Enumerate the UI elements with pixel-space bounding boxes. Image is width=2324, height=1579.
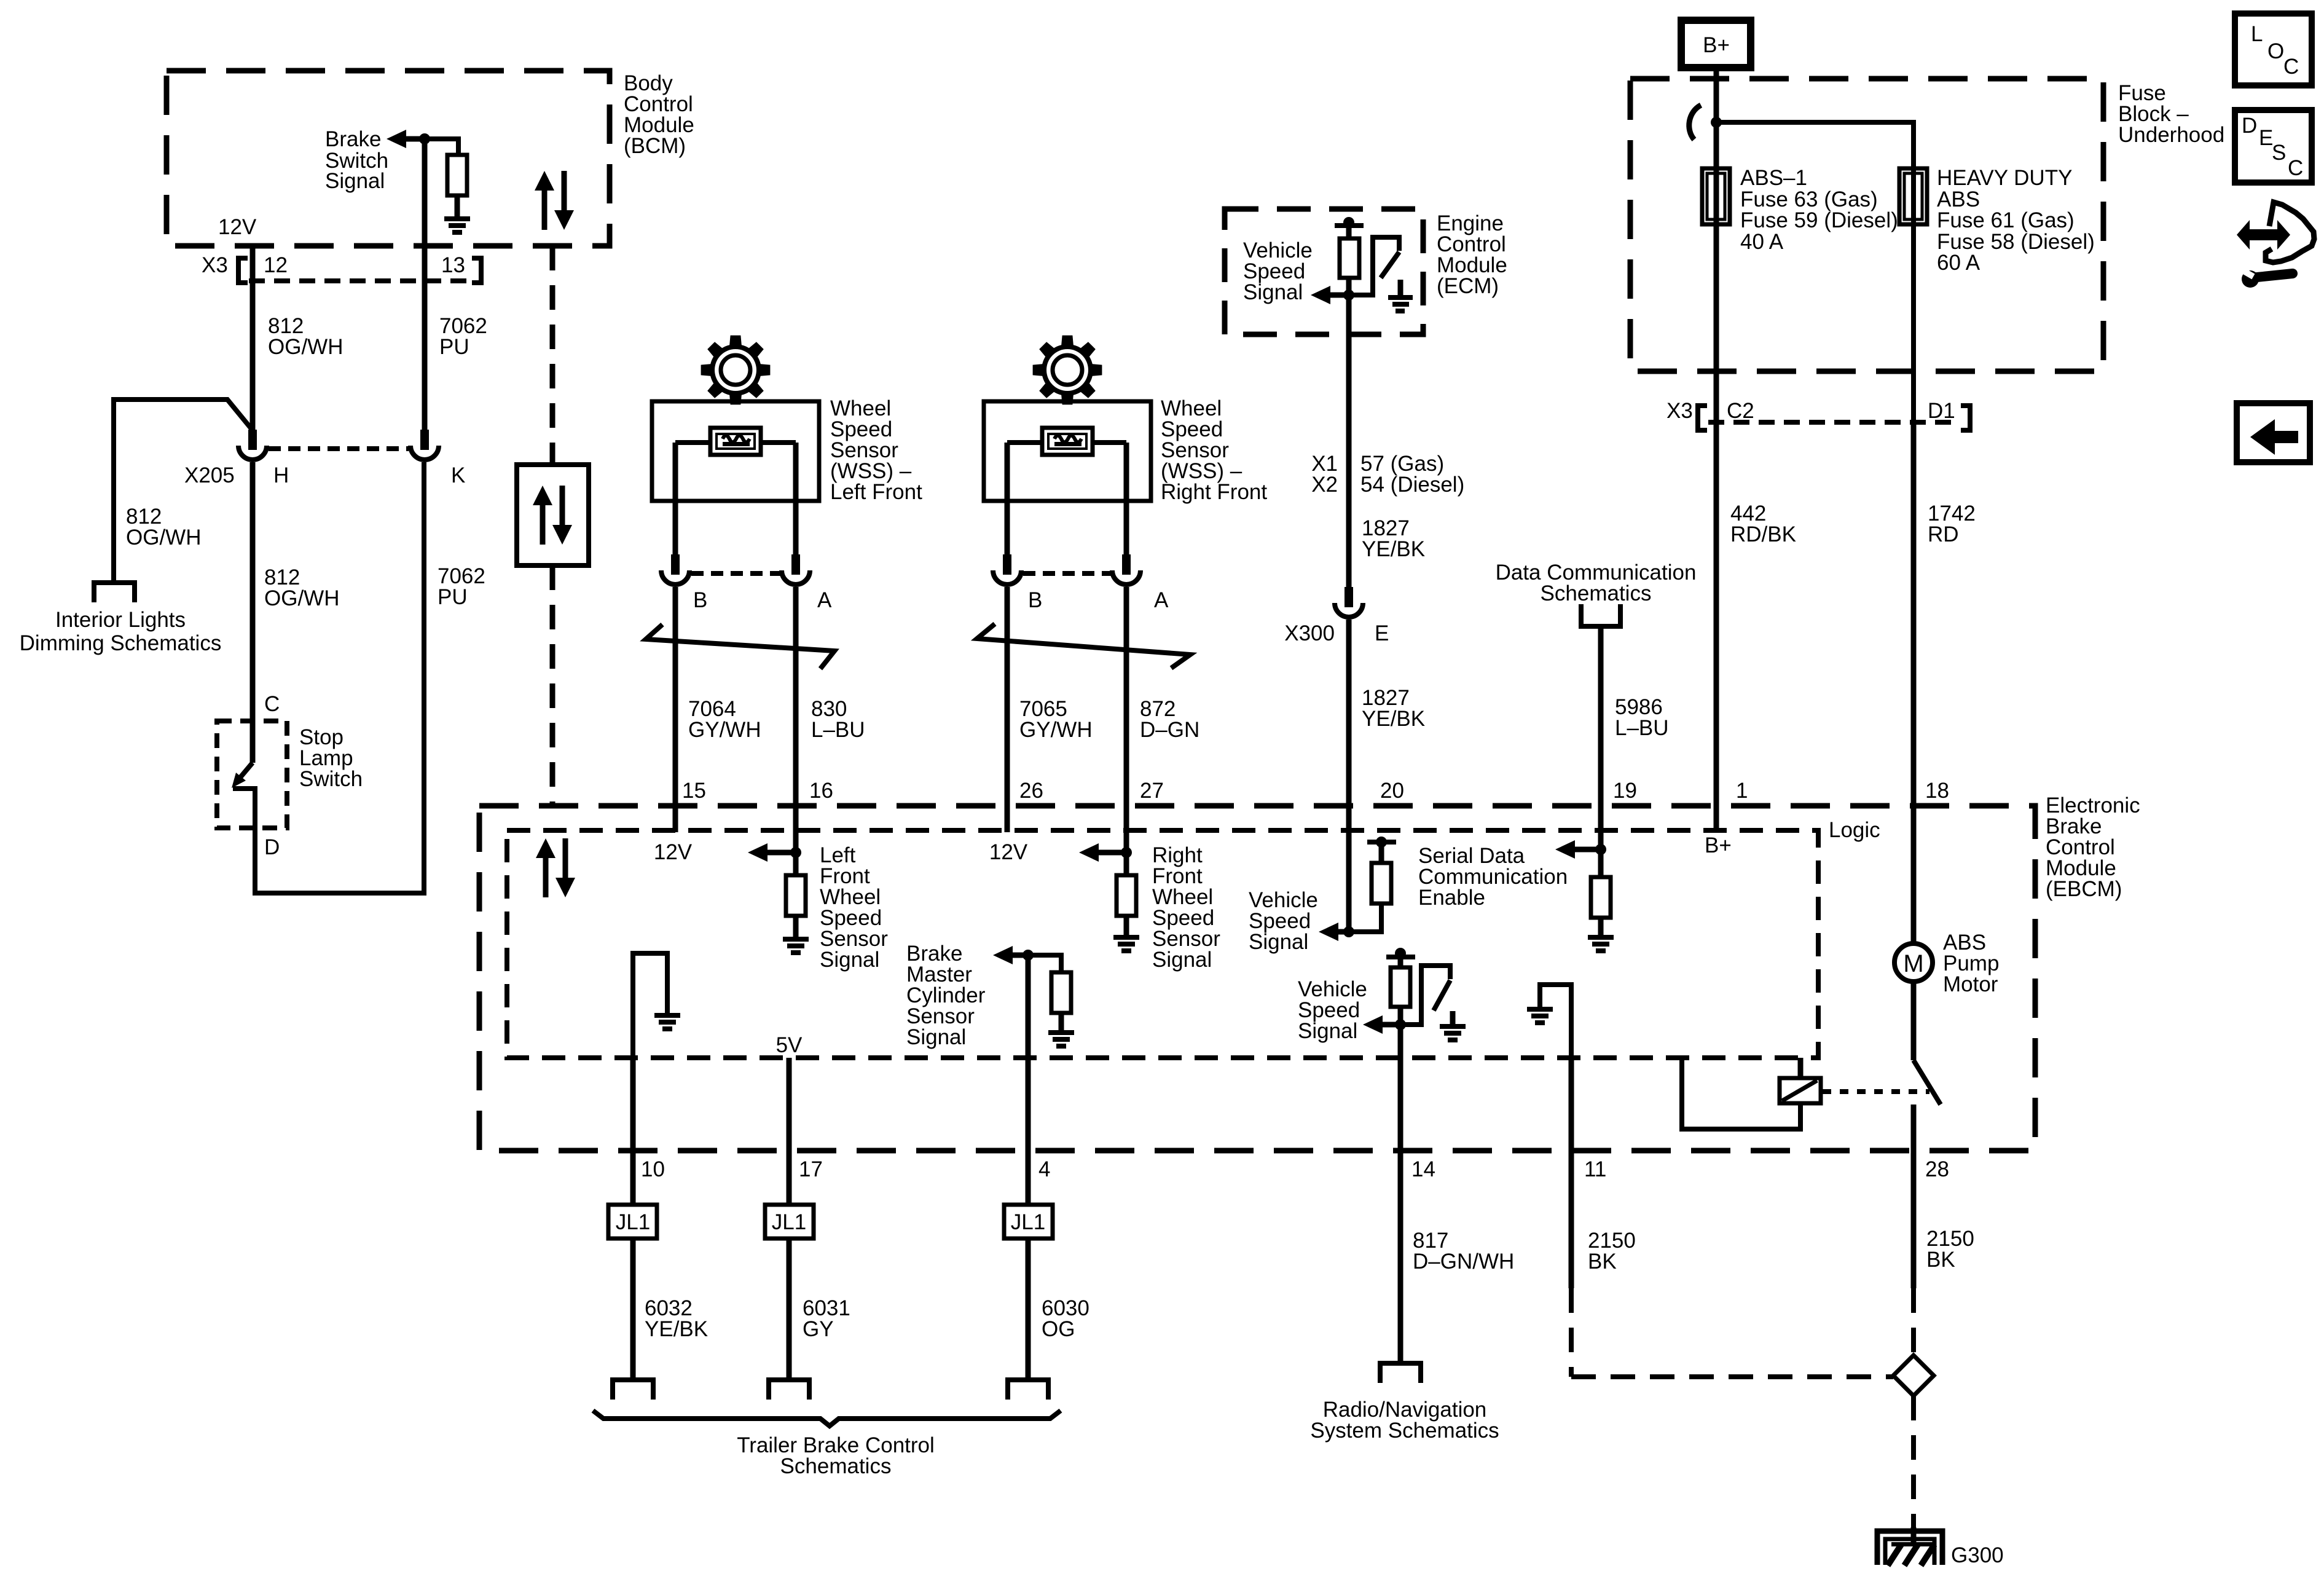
signal arrow: Vehicle Speed Signal (EBCM pin20) — [1249, 888, 1349, 954]
connector X300 cup — [1335, 603, 1363, 617]
wire: circuit 1827 X300 to pin 20 — [1346, 620, 1352, 932]
svg-text:Schematics: Schematics — [780, 1454, 892, 1478]
inline connector JL1 (pin 4) — [1004, 1205, 1053, 1238]
svg-text:A: A — [1154, 588, 1169, 612]
svg-text:Right Front: Right Front — [1161, 480, 1267, 504]
wire: right WSS lead A — [1124, 443, 1129, 556]
svg-text:12: 12 — [264, 253, 288, 277]
connector pin B cup (right WSS) — [993, 570, 1021, 585]
label: 1742 RD — [1928, 502, 1976, 546]
ground: BCM internal ground — [444, 216, 470, 235]
wire: dashed serial data arrow box to EBCM — [550, 565, 555, 806]
icon box: LOC — [2235, 14, 2312, 85]
arrows: BCM serial data up/down — [535, 171, 574, 230]
resistor: BCM brake switch pull-down — [447, 155, 467, 195]
signal arrow: Vehicle Speed Signal (pin14) — [1298, 977, 1400, 1043]
svg-text:Logic: Logic — [1829, 818, 1880, 842]
off-page reference: trailer stub 3 — [1008, 1380, 1048, 1400]
connector X300 pigtail — [1345, 587, 1353, 607]
signal arrow: Vehicle Speed Signal (ECM) — [1243, 238, 1349, 304]
wire: pin 17 5V — [787, 1058, 792, 1151]
wire: circuit 7064 to pin 15 — [673, 587, 678, 832]
sensor element: left WSS coil box — [710, 428, 761, 455]
ground: serial data internal — [1588, 935, 1614, 953]
shield symbol (left WSS pair) — [646, 624, 834, 669]
svg-text:20: 20 — [1380, 779, 1404, 803]
svg-text:RD/BK: RD/BK — [1730, 522, 1796, 546]
wire: pin 10 through EBCM — [630, 1058, 636, 1151]
svg-text:17: 17 — [799, 1157, 823, 1181]
signal arrow: Right Front WSS Signal — [1079, 843, 1220, 972]
wire: branch to heavy duty fuse — [1716, 122, 1914, 424]
svg-text:C: C — [2283, 55, 2299, 79]
svg-text:Dimming Schematics: Dimming Schematics — [20, 631, 222, 655]
relay linkage (dotted) — [1823, 1089, 1929, 1094]
svg-text:A: A — [817, 588, 832, 612]
svg-text:L–BU: L–BU — [811, 718, 865, 742]
module box: Fuse Block - Underhood — [1630, 79, 2103, 371]
svg-text:Signal: Signal — [1249, 930, 1308, 954]
off-page reference: data communication stub — [1581, 604, 1620, 626]
connector X3 row: bracket left — [238, 258, 248, 283]
label: X3 C2 D1 — [1666, 399, 1955, 423]
connector dashed line (left WSS) — [691, 571, 780, 576]
svg-text:Interior Lights: Interior Lights — [55, 608, 186, 632]
icon: tone wheel gear (left WSS) — [701, 336, 771, 405]
node: ECM VSS junction — [1343, 289, 1354, 301]
icon: component view arrow with wrench — [2237, 220, 2290, 250]
svg-text:D: D — [264, 835, 280, 859]
connector pin A pigtail (right WSS) — [1122, 554, 1131, 575]
svg-text:18: 18 — [1925, 779, 1949, 803]
svg-text:X2: X2 — [1311, 473, 1338, 497]
ground: G300 chassis ground — [1877, 1531, 1942, 1565]
relay coil return: coil to logic — [1682, 1058, 1800, 1129]
svg-text:4: 4 — [1038, 1157, 1050, 1181]
svg-text:28: 28 — [1925, 1157, 1949, 1181]
wire: circuit 5986 to pin 19 — [1598, 626, 1604, 849]
svg-text:Fuse 61 (Gas): Fuse 61 (Gas) — [1937, 208, 2075, 232]
svg-text:1: 1 — [1736, 779, 1748, 803]
wire: pin 28 circuit 2150 — [1911, 1151, 1917, 1288]
label: 2150 BK (pin 11) — [1588, 1229, 1636, 1274]
resistor: serial data load — [1598, 849, 1604, 877]
label: Stop Lamp Switch — [299, 725, 363, 791]
wire: pin 10 to JL1 — [630, 1151, 636, 1205]
ground: right WSS internal — [1113, 935, 1139, 953]
label: Electronic Brake Control Module (EBCM) — [2046, 793, 2140, 901]
node: BMC junction — [1023, 950, 1034, 961]
svg-text:X300: X300 — [1284, 621, 1335, 645]
label: 5986 L-BU — [1615, 695, 1669, 740]
off-page reference: radio stub — [1380, 1363, 1421, 1383]
svg-text:X3: X3 — [1666, 399, 1693, 423]
brace: trailer brake control group — [593, 1411, 1061, 1426]
svg-text:E: E — [2259, 126, 2273, 150]
svg-text:JL1: JL1 — [772, 1210, 806, 1234]
fuse: ABS-1 40A — [1702, 168, 1730, 224]
switch: ECM VSS output driver — [1349, 237, 1399, 295]
resistor: VSS pull-up — [1379, 845, 1384, 863]
label: HEAVY DUTY ABS Fuse 61/58 60 A — [1937, 166, 2095, 275]
connector X205 dashed line — [269, 446, 409, 451]
connector X3 row (fuse block): dashed line — [1708, 420, 1960, 425]
ground: BMC internal — [1048, 1030, 1074, 1049]
label: 812 OG/WH (upper) — [268, 314, 343, 359]
connector X3 row (fuse block): bracket left — [1698, 406, 1707, 430]
wire: motor to relay contact — [1911, 982, 1917, 1060]
label: 7065 GY/WH — [1019, 697, 1093, 742]
switch: relay contact blade — [1914, 1060, 1941, 1105]
svg-text:Signal: Signal — [1298, 1019, 1357, 1043]
connector X3 row (fuse block): bracket right — [1961, 406, 1970, 430]
svg-text:YE/BK: YE/BK — [1362, 537, 1425, 561]
svg-text:(ECM): (ECM) — [1437, 274, 1499, 298]
wire: left WSS lead B — [673, 443, 678, 556]
svg-text:M: M — [1903, 950, 1923, 977]
connector X205 pin K cup — [410, 446, 439, 460]
signal arrow: Serial Data Communication Enable — [1418, 840, 1601, 910]
label: ABS-1 Fuse 63/59 40 A — [1740, 166, 1898, 254]
ground: pin 10 internal — [654, 1013, 680, 1031]
svg-text:X3: X3 — [202, 253, 228, 277]
wire: circuit 1827 from ECM — [1346, 295, 1352, 588]
connector X205 pin K pigtail — [420, 430, 429, 450]
wire: left WSS lead A — [793, 443, 799, 556]
pin labels EBCM bottom — [641, 1157, 1949, 1181]
svg-text:C: C — [2288, 156, 2303, 180]
svg-text:RD: RD — [1928, 522, 1959, 546]
node: ECM internal B+ dot and bar — [1343, 217, 1354, 228]
node: VSS pull-up B+ bar — [1376, 837, 1387, 848]
svg-text:B: B — [1028, 588, 1042, 612]
svg-text:PU: PU — [438, 585, 468, 609]
svg-text:Brake: Brake — [325, 127, 381, 151]
switch: VSS pin14 output driver — [1400, 966, 1450, 1025]
svg-text:12V: 12V — [218, 215, 257, 239]
wire: pin 11 circuit 2150 — [1569, 1151, 1574, 1288]
label: 2150 BK (pin 28) — [1926, 1227, 1974, 1272]
svg-text:16: 16 — [809, 779, 833, 803]
svg-text:B+: B+ — [1703, 33, 1730, 57]
svg-text:Signal: Signal — [906, 1025, 966, 1049]
resistor: left WSS load — [793, 853, 799, 875]
svg-text:GY/WH: GY/WH — [688, 718, 761, 742]
fuse: HEAVY DUTY ABS 60A — [1899, 168, 1927, 224]
label: Data Communication Schematics — [1496, 561, 1697, 605]
node: serial data junction — [1595, 844, 1606, 855]
label: Trailer Brake Control Schematics — [737, 1433, 935, 1478]
svg-text:(BCM): (BCM) — [624, 134, 686, 158]
svg-text:OG: OG — [1042, 1317, 1075, 1341]
label: Radio/Navigation System Schematics — [1310, 1398, 1499, 1443]
wire: pin 4 from BMC junction — [1026, 955, 1031, 1151]
wire: right WSS internal leads — [1007, 440, 1043, 445]
wire: pin 11 dashed to splice — [1569, 1288, 1574, 1377]
arrows: EBCM serial data up/down — [536, 838, 575, 897]
node: VSS pin14 pull-up bar — [1395, 948, 1406, 959]
wire: 812 OG/WH X205 H to stop lamp switch — [250, 462, 256, 763]
label: 812 OG/WH (branch) — [126, 505, 201, 549]
svg-text:L: L — [2251, 22, 2263, 46]
svg-text:E: E — [1375, 621, 1389, 645]
svg-text:GY: GY — [803, 1317, 834, 1341]
svg-text:Motor: Motor — [1943, 972, 1998, 996]
wire: circuit 6030 to trailer stub — [1026, 1238, 1031, 1380]
wire: right WSS lead B — [1005, 443, 1010, 556]
pin labels EBCM top — [682, 779, 1949, 803]
wire: circuit 7065 to pin 26 — [1005, 587, 1010, 832]
svg-text:Schematics: Schematics — [1541, 581, 1652, 605]
module box: Electronic Brake Control Module EBCM — [479, 806, 2035, 1151]
wire: resistor to junction — [1346, 278, 1352, 295]
wire: junction to resistor corner — [425, 139, 458, 155]
svg-text:Signal: Signal — [325, 169, 385, 193]
svg-text:System Schematics: System Schematics — [1310, 1419, 1499, 1443]
label: connector X3 pins 12 13 — [202, 253, 465, 277]
label: 6032 YE/BK — [645, 1296, 708, 1341]
svg-text:Signal: Signal — [1243, 280, 1303, 304]
label: Interior Lights Dimming Schematics — [20, 608, 222, 655]
connector X205 pin H cup — [238, 446, 267, 460]
label: X205 H K — [184, 463, 465, 487]
svg-text:YE/BK: YE/BK — [645, 1317, 708, 1341]
label: 7064 GY/WH — [688, 697, 761, 742]
off-page reference: interior lights stub — [94, 583, 135, 602]
label: 1827 YE/BK (upper) — [1362, 516, 1425, 561]
ground: VSS pin14 internal — [1450, 1011, 1456, 1024]
svg-text:D1: D1 — [1928, 399, 1955, 423]
svg-text:PU: PU — [439, 335, 469, 359]
wire: pin 4 to JL1 — [1026, 1151, 1031, 1205]
wire: pin 14 from junction — [1398, 1025, 1403, 1151]
icon box: back arrow — [2237, 403, 2310, 462]
wire: circuit 812 OG/WH from BCM 12V to X205 H — [250, 243, 256, 430]
wire: pin 28 dashed to splice — [1911, 1288, 1916, 1355]
logic box (dashed) — [507, 830, 1818, 1058]
sensor element: right WSS coil box — [1042, 428, 1093, 455]
node: BCM brake switch junction — [419, 133, 430, 144]
off-page reference: trailer stub 2 — [769, 1380, 809, 1400]
label: Engine Control Module (ECM) — [1437, 211, 1507, 298]
svg-text:BK: BK — [1588, 1250, 1617, 1274]
label: 7062 PU (upper) — [439, 314, 487, 359]
wire: stop lamp switch output jog — [233, 789, 255, 828]
node: VSS junction pin 20 — [1343, 926, 1354, 937]
ground: pin 11 internal — [1527, 1007, 1553, 1025]
wire: contact to pin 28 — [1911, 1105, 1917, 1151]
svg-text:Switch: Switch — [299, 767, 363, 791]
svg-text:BK: BK — [1926, 1248, 1955, 1272]
connector X205 pin H pigtail — [248, 430, 257, 450]
label: Fuse Block - Underhood — [2118, 81, 2224, 147]
label: Wheel Speed Sensor (WSS) - Right Front — [1161, 396, 1267, 504]
connector pin A pigtail (left WSS) — [791, 554, 800, 575]
label: 830 L-BU — [811, 697, 865, 742]
node: left WSS junction — [790, 847, 801, 858]
wire: circuit 1742 to pin 18 — [1911, 424, 1917, 945]
connector pin B pigtail (right WSS) — [1003, 554, 1011, 575]
svg-text:12V: 12V — [989, 840, 1028, 864]
wire: circuit 872 to pin 27 — [1124, 587, 1129, 853]
node: VSS pin14 junction — [1395, 1019, 1406, 1030]
off-page reference: trailer stub 1 — [613, 1380, 653, 1400]
svg-text:13: 13 — [441, 253, 465, 277]
svg-text:OG/WH: OG/WH — [264, 586, 339, 610]
wire: circuit 6032 to trailer stub — [630, 1238, 636, 1380]
resistor: right WSS load — [1124, 853, 1129, 875]
wire: stop lamp switch D loop to K — [255, 462, 424, 893]
label: B A (right WSS) — [1028, 588, 1169, 612]
splice symbol: feed branch arc — [1689, 105, 1701, 140]
relay coil: pump motor relay — [1780, 1078, 1821, 1103]
wire: ECM B+ to resistor — [1346, 225, 1352, 238]
module box: Body Control Module (BCM) — [167, 71, 610, 246]
svg-text:(EBCM): (EBCM) — [2046, 877, 2122, 901]
label: 6030 OG — [1042, 1296, 1089, 1341]
svg-text:OG/WH: OG/WH — [126, 526, 201, 549]
svg-text:O: O — [2267, 39, 2284, 63]
svg-text:60 A: 60 A — [1937, 251, 1981, 275]
connector pin B pigtail (left WSS) — [671, 554, 680, 575]
wire: circuit 6031 to trailer stub — [787, 1238, 792, 1380]
label: ABS Pump Motor — [1943, 931, 1999, 996]
signal arrow: Left Front WSS Signal — [748, 843, 888, 972]
label: 872 D-GN — [1140, 697, 1199, 742]
wire: pin 14 to radio stub — [1398, 1151, 1403, 1363]
svg-text:HEAVY DUTY: HEAVY DUTY — [1937, 166, 2072, 190]
svg-text:26: 26 — [1019, 779, 1043, 803]
connector pin A cup (right WSS) — [1112, 570, 1140, 585]
symbol box: serial data up/down arrows — [517, 465, 589, 565]
svg-text:B+: B+ — [1705, 833, 1732, 857]
svg-text:C2: C2 — [1727, 399, 1754, 423]
node: fuse feed junction — [1711, 117, 1722, 128]
svg-text:27: 27 — [1140, 779, 1164, 803]
svg-text:G300: G300 — [1951, 1543, 2004, 1567]
svg-text:L–BU: L–BU — [1615, 716, 1669, 740]
svg-text:Enable: Enable — [1418, 886, 1485, 910]
svg-text:14: 14 — [1411, 1157, 1435, 1181]
svg-text:5V: 5V — [776, 1033, 803, 1057]
label: Body Control Module (BCM) — [624, 71, 694, 158]
connector X3 row: dashed line — [249, 278, 473, 283]
svg-text:YE/BK: YE/BK — [1362, 707, 1425, 731]
label: Wheel Speed Sensor (WSS) - Left Front — [830, 396, 922, 504]
component box: Wheel Speed Sensor Right Front — [984, 401, 1151, 501]
svg-text:B: B — [693, 588, 707, 612]
svg-text:D–GN/WH: D–GN/WH — [1413, 1250, 1514, 1274]
wire: dashed serial data BCM to arrow box — [550, 246, 555, 465]
svg-text:ABS–1: ABS–1 — [1740, 166, 1807, 190]
label: X300 E — [1284, 621, 1389, 645]
svg-text:D–GN: D–GN — [1140, 718, 1199, 742]
label: B A (left WSS) — [693, 588, 832, 612]
wire: pin 11 through EBCM — [1569, 1058, 1574, 1151]
icon: tone wheel gear (right WSS) — [1033, 336, 1102, 405]
svg-text:15: 15 — [682, 779, 706, 803]
svg-text:S: S — [2272, 141, 2286, 165]
label: 6031 GY — [803, 1296, 850, 1341]
module box: Engine Control Module (ECM) — [1225, 209, 1423, 334]
wire: splice dashed to G300 — [1911, 1396, 1916, 1529]
resistor: VSS pin14 pull-up — [1398, 957, 1403, 967]
svg-text:Signal: Signal — [820, 948, 879, 972]
svg-text:JL1: JL1 — [616, 1210, 650, 1234]
wire: circuit 7062 PU from BCM pin 13 to X205 K — [422, 139, 428, 430]
svg-text:D: D — [2242, 114, 2257, 138]
label: X1 X2 pins — [1311, 452, 1464, 497]
wire: left WSS internal leads — [675, 440, 711, 445]
svg-text:C: C — [264, 692, 280, 716]
label: 1827 YE/BK (lower) — [1362, 686, 1425, 731]
splice: ground splice diamond — [1893, 1355, 1934, 1396]
resistor: BMC load — [1028, 955, 1061, 972]
icon box: DESC — [2235, 110, 2312, 183]
svg-text:Underhood: Underhood — [2118, 123, 2224, 147]
wire: B+ into fuse block — [1714, 68, 1719, 424]
shield symbol (right WSS pair) — [977, 624, 1190, 668]
svg-text:H: H — [273, 463, 289, 487]
ground: left WSS internal — [783, 937, 809, 955]
svg-text:GY/WH: GY/WH — [1019, 718, 1093, 742]
svg-text:12V: 12V — [654, 840, 693, 864]
wire: circuit 442 to pin 1 — [1714, 424, 1719, 832]
svg-text:54 (Diesel): 54 (Diesel) — [1360, 473, 1464, 497]
svg-text:10: 10 — [641, 1157, 665, 1181]
component box: Stop Lamp Switch (dashed) — [217, 721, 287, 828]
label: 812 OG/WH (lower) — [264, 565, 339, 610]
inline connector JL1 (pin 17) — [765, 1205, 814, 1238]
svg-text:Left Front: Left Front — [830, 480, 922, 504]
signal arrow: Brake Master Cylinder Sensor Signal — [906, 942, 1028, 1049]
wire: 812 OG/WH branch to interior lights — [114, 400, 253, 583]
inline connector JL1 (pin 10) — [608, 1205, 657, 1238]
switch: stop lamp switch blade — [240, 763, 253, 778]
svg-text:19: 19 — [1613, 779, 1637, 803]
wire: pin 10 internal ground hook — [633, 953, 667, 1058]
svg-text:OG/WH: OG/WH — [268, 335, 343, 359]
wire: pin 17 to JL1 — [787, 1151, 792, 1205]
ground: ECM internal ground — [1398, 280, 1403, 295]
connector X3 row: bracket right — [472, 258, 481, 283]
motor: ABS pump motor M — [1894, 943, 1933, 982]
label: 817 D-GN/WH — [1413, 1229, 1514, 1274]
connector pin A cup (left WSS) — [782, 570, 810, 585]
svg-text:40 A: 40 A — [1740, 230, 1784, 254]
wire: circuit 830 to pin 16 — [793, 587, 799, 853]
svg-text:JL1: JL1 — [1011, 1210, 1045, 1234]
wire: pin 11 internal ground hook — [1540, 985, 1571, 1058]
label: 7062 PU (lower) — [438, 564, 485, 609]
svg-text:Signal: Signal — [1152, 948, 1212, 972]
label: 442 RD/BK — [1730, 502, 1796, 546]
resistor: ECM VSS pull-up — [1340, 238, 1359, 278]
svg-text:K: K — [451, 463, 465, 487]
node: right WSS junction — [1121, 847, 1132, 858]
connector pin B cup (left WSS) — [661, 570, 689, 585]
relay coil feed: logic to coil — [1798, 1058, 1804, 1078]
wire: resistor to ground — [455, 195, 460, 216]
connector dashed line (right WSS) — [1023, 571, 1112, 576]
svg-text:X205: X205 — [184, 463, 235, 487]
power feed: B+ box — [1681, 20, 1751, 68]
svg-text:11: 11 — [1584, 1157, 1606, 1181]
signal arrow: Brake Switch Signal — [325, 127, 425, 193]
svg-text:Fuse 59 (Diesel): Fuse 59 (Diesel) — [1740, 208, 1898, 232]
component box: Wheel Speed Sensor Left Front — [652, 401, 819, 501]
